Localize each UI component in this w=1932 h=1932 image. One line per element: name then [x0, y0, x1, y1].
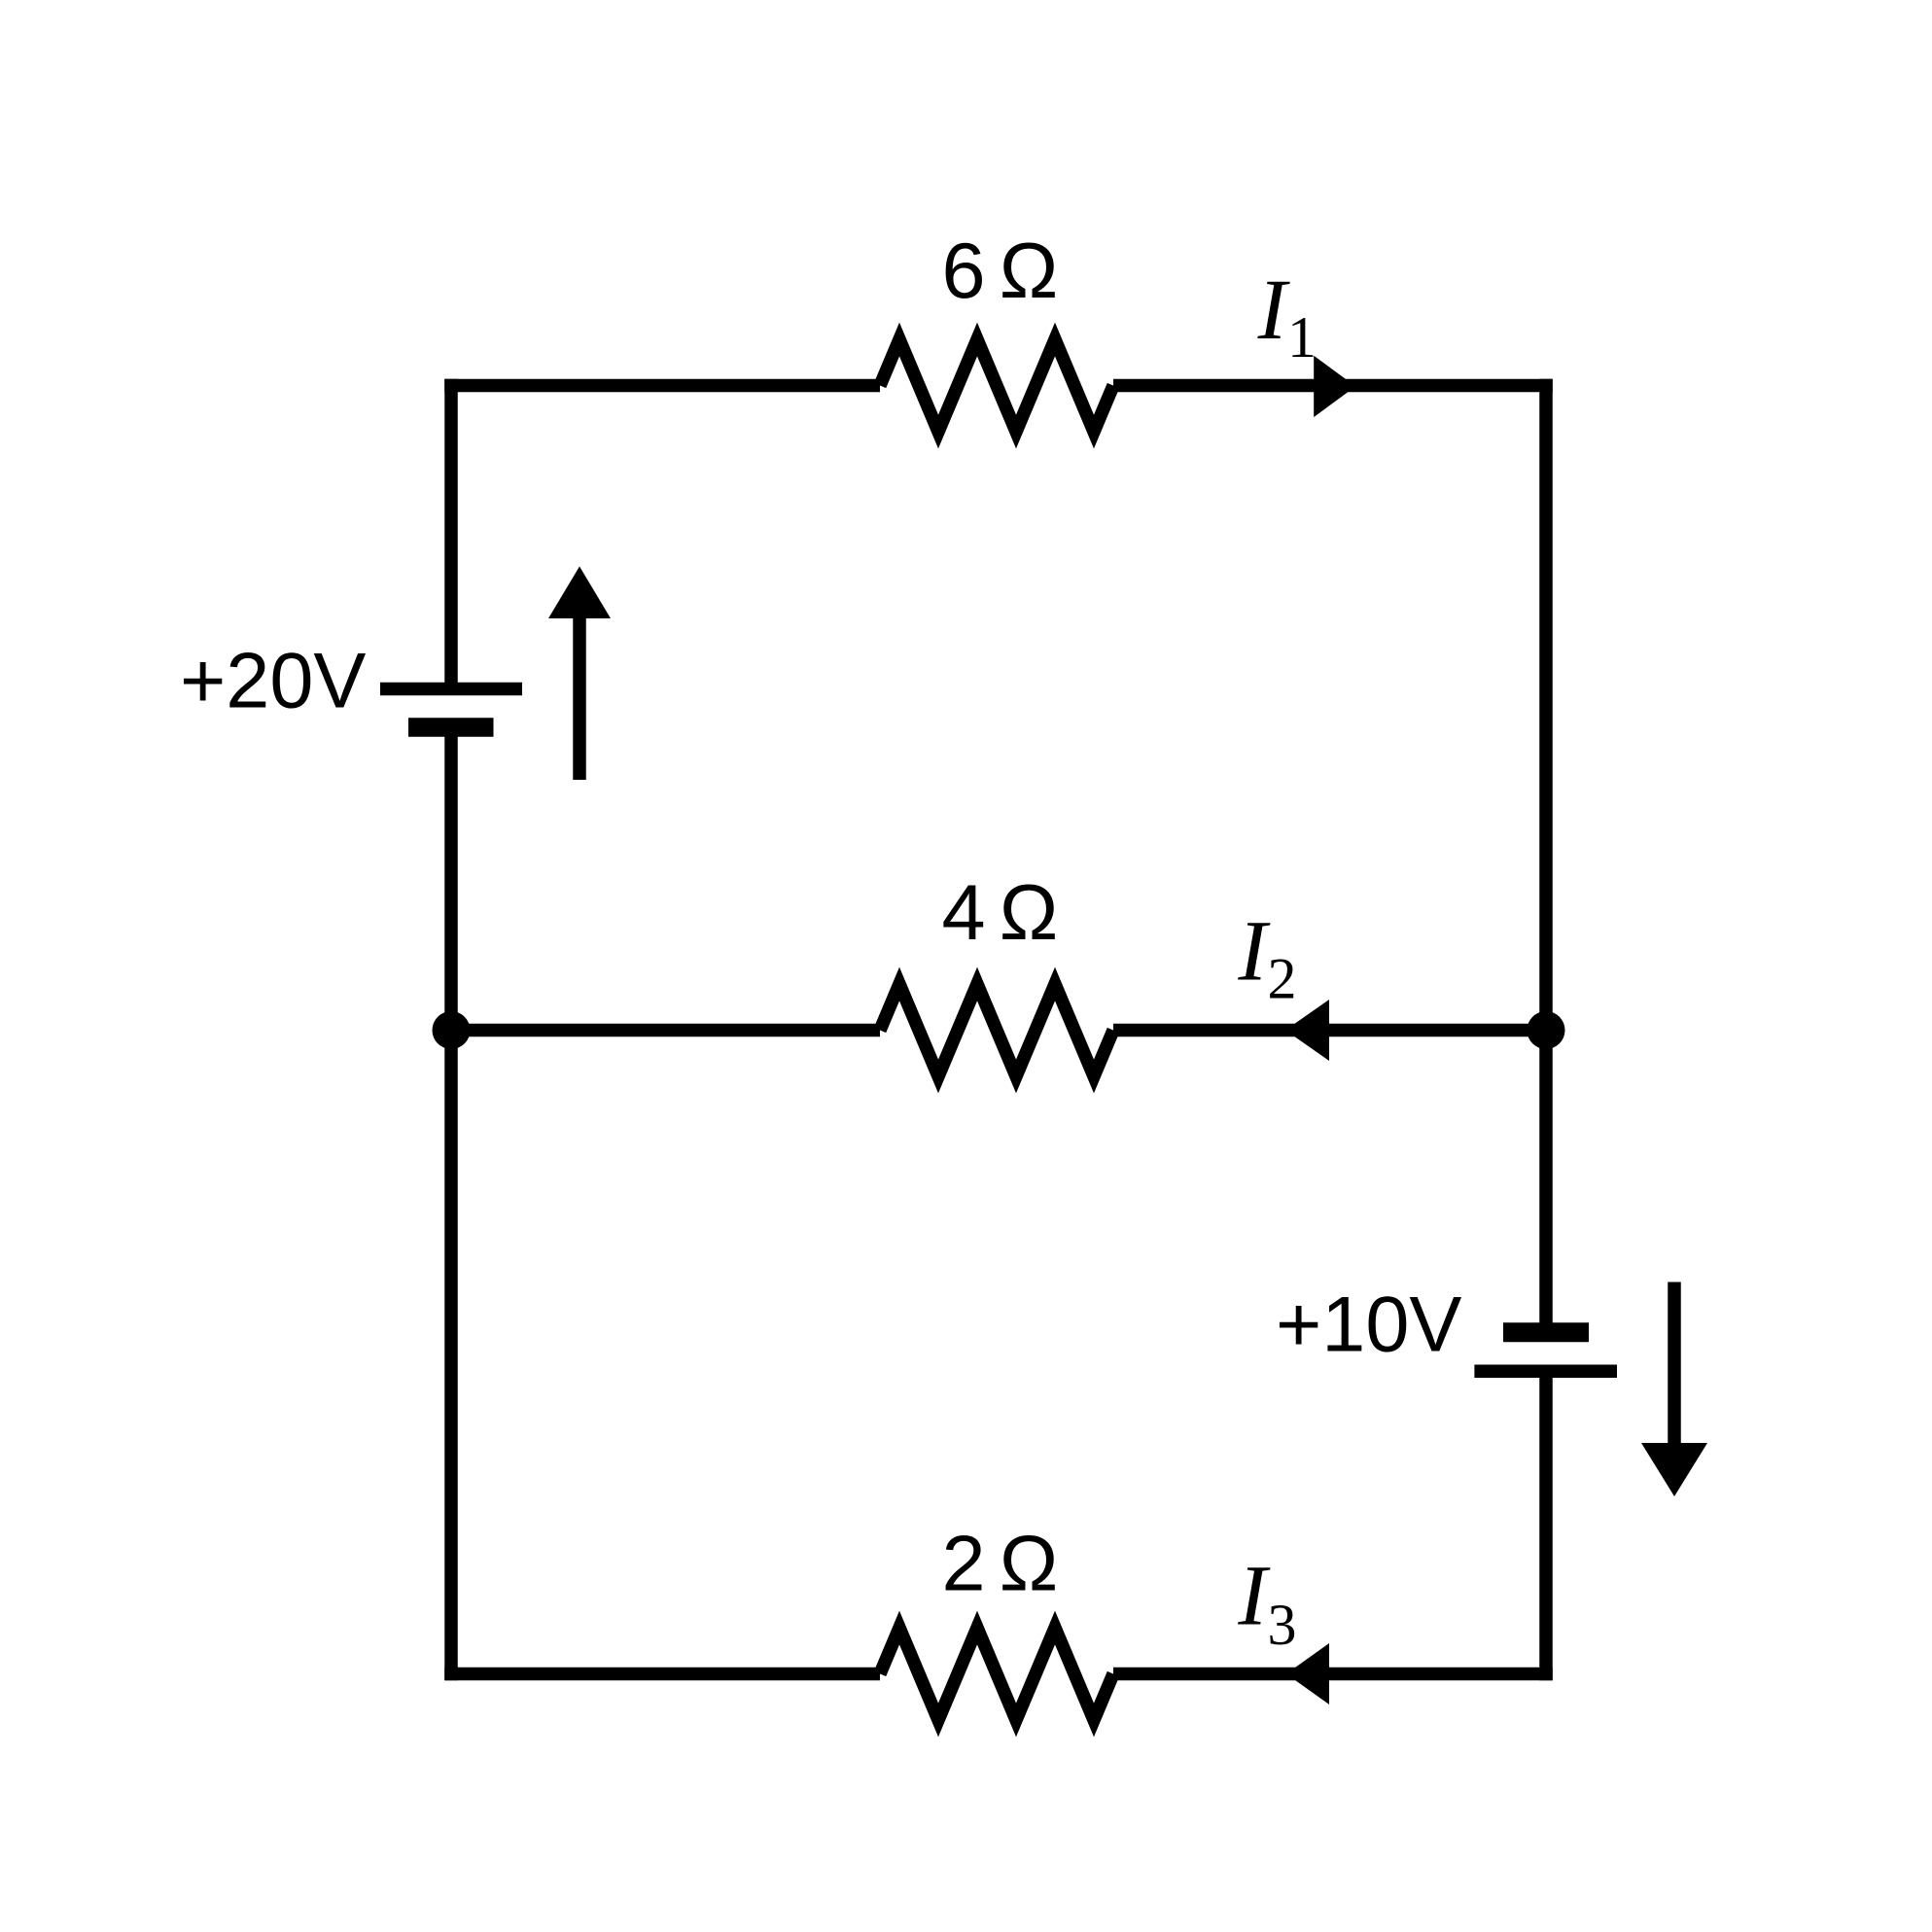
resistor R2 4ohm zigzag: [880, 984, 1113, 1076]
battery B1 +20V long plate: [380, 683, 522, 696]
wire middle left segment: [451, 1024, 880, 1037]
battery B2 +10V long plate: [1474, 1364, 1617, 1378]
battery B1 +20V short plate: [408, 718, 494, 737]
wire middle right segment: [1113, 1024, 1546, 1037]
svg-text:+10V: +10V: [1276, 1282, 1461, 1369]
svg-text:4: 4: [941, 869, 985, 957]
battery B2 +10V short plate: [1503, 1322, 1589, 1342]
svg-text:Ω: Ω: [1000, 869, 1059, 957]
svg-text:1: 1: [1287, 305, 1317, 369]
wire right vertical upper: [1539, 379, 1553, 1333]
wire right vertical lower: [1539, 1371, 1553, 1680]
node B dot right: [1528, 1011, 1565, 1049]
svg-text:6: 6: [941, 228, 985, 315]
current arrow shaft down (right loop): [1668, 1282, 1681, 1445]
svg-text:I: I: [1237, 1548, 1271, 1643]
current arrow head up: [548, 567, 611, 619]
wire left vertical lower: [444, 727, 458, 1680]
svg-text:Ω: Ω: [1000, 1520, 1059, 1607]
arrow I1 head: [1314, 356, 1355, 417]
svg-text:2: 2: [1268, 947, 1297, 1011]
arrow I2 head: [1285, 1000, 1329, 1061]
wire top right segment: [1113, 379, 1553, 393]
current arrow shaft up (left loop): [573, 618, 586, 780]
svg-text:2: 2: [941, 1520, 985, 1607]
wire left vertical upper: [444, 379, 458, 689]
svg-text:Ω: Ω: [1000, 228, 1059, 315]
node A dot left: [433, 1011, 471, 1049]
wire bottom right segment: [1113, 1668, 1553, 1681]
current arrow head down: [1641, 1443, 1707, 1496]
wire bottom left segment: [444, 1668, 880, 1681]
svg-text:I: I: [1237, 904, 1271, 1000]
svg-text:3: 3: [1268, 1593, 1297, 1657]
svg-text:+20V: +20V: [180, 638, 366, 725]
wire top left segment: [444, 379, 880, 393]
svg-text:I: I: [1257, 263, 1291, 358]
resistor R3 2ohm zigzag: [880, 1628, 1113, 1720]
arrow I3 head: [1286, 1643, 1329, 1704]
resistor R1 6ohm zigzag: [880, 339, 1113, 432]
